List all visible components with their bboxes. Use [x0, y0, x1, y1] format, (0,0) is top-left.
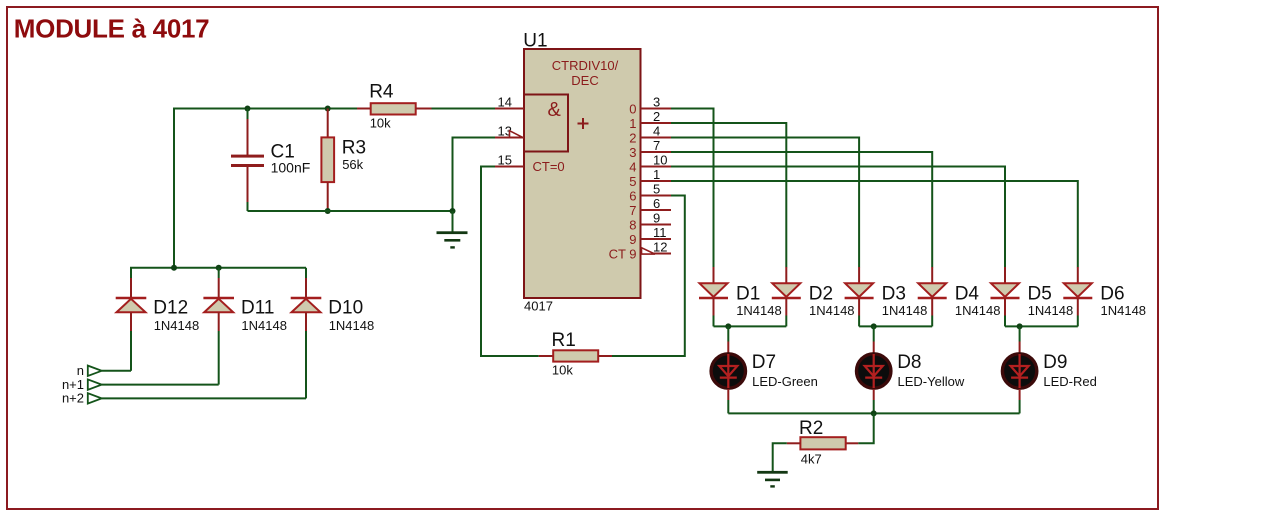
wire diode anode bus D12-D11-D10 — [130, 267, 306, 269]
pin 3 out 0 stub — [641, 108, 672, 110]
svg-text:LED-Green: LED-Green — [752, 374, 818, 389]
svg-text:3: 3 — [629, 145, 636, 160]
pin CT9 wedge — [642, 248, 656, 254]
node ground junction — [450, 208, 456, 214]
pin 13 stub — [495, 137, 524, 139]
op IC U1 4017 body — [524, 49, 641, 298]
wire R4 right to pin 14 — [432, 108, 496, 110]
svg-text:CT=0: CT=0 — [533, 159, 565, 174]
svg-text:10k: 10k — [370, 115, 391, 130]
svg-text:n+2: n+2 — [62, 391, 84, 406]
input terminal n+1 — [88, 379, 102, 389]
LED D9 — [1002, 326, 1036, 413]
diode D4 — [918, 267, 947, 326]
diode D5 — [991, 267, 1020, 326]
pin 15 stub — [495, 166, 524, 168]
svg-text:D5: D5 — [1028, 283, 1052, 304]
pin 10 out 4 stub — [641, 166, 672, 168]
wire out 3 to D4 — [671, 152, 932, 267]
LED D7 — [711, 326, 745, 413]
svg-text:D10: D10 — [328, 298, 363, 319]
diode D11 — [203, 268, 234, 385]
svg-text:D8: D8 — [897, 352, 921, 373]
svg-text:R3: R3 — [342, 138, 366, 159]
svg-text:1N4148: 1N4148 — [809, 303, 855, 318]
node C1 top junction — [245, 106, 251, 112]
node LED tap junction — [1017, 323, 1023, 329]
diode D10 — [291, 268, 322, 399]
pin 6 out 7 stub — [641, 209, 672, 211]
diode D12 — [116, 268, 147, 371]
wire common bus to R2 — [858, 413, 874, 443]
plus symbol — [578, 118, 589, 129]
wire R1 right to pin 6 (out 5) — [612, 196, 685, 357]
svg-text:D2: D2 — [809, 283, 833, 304]
svg-text:9: 9 — [629, 232, 636, 247]
pin 9 out 8 stub — [641, 224, 672, 226]
diode D3 — [845, 267, 874, 326]
svg-text:10k: 10k — [552, 363, 573, 378]
wire pin15 loop down-left to R1 — [481, 167, 539, 357]
svg-text:D11: D11 — [241, 298, 274, 319]
svg-text:4: 4 — [653, 123, 660, 138]
svg-text:LED-Red: LED-Red — [1043, 374, 1096, 389]
svg-text:7: 7 — [653, 138, 660, 153]
svg-text:1N4148: 1N4148 — [241, 318, 287, 333]
wire out 0 to D1 — [671, 109, 714, 268]
input terminal n — [88, 366, 102, 376]
svg-text:9: 9 — [653, 210, 660, 225]
svg-text:1N4148: 1N4148 — [329, 318, 375, 333]
svg-text:5: 5 — [629, 174, 636, 189]
svg-text:1N4148: 1N4148 — [736, 303, 782, 318]
pin 14 stub — [495, 108, 524, 110]
wire cathode bus D5-D6 — [1005, 325, 1078, 327]
svg-text:5: 5 — [653, 181, 660, 196]
svg-text:1N4148: 1N4148 — [882, 303, 928, 318]
svg-text:n+1: n+1 — [62, 377, 84, 392]
wire left vertical rail — [173, 108, 175, 268]
diode D2 — [772, 267, 801, 326]
svg-text:R4: R4 — [369, 82, 394, 103]
svg-text:R2: R2 — [799, 418, 823, 439]
node LED tap junction — [871, 323, 877, 329]
node R3 top junction — [325, 106, 331, 112]
svg-text:100nF: 100nF — [271, 159, 311, 175]
resistor R2 — [846, 442, 859, 444]
svg-text:DEC: DEC — [571, 73, 598, 88]
LED D8 — [857, 326, 891, 413]
node R3 bottom junction — [325, 208, 331, 214]
resistor R3 — [327, 109, 329, 138]
diode D1 — [699, 267, 728, 326]
svg-text:11: 11 — [653, 225, 667, 240]
svg-text:4: 4 — [629, 159, 636, 174]
svg-text:CT 9: CT 9 — [609, 246, 637, 261]
wire out 5 to D6 — [671, 181, 1078, 267]
svg-text:1: 1 — [629, 116, 636, 131]
svg-text:U1: U1 — [523, 31, 547, 52]
svg-text:D7: D7 — [752, 352, 776, 373]
svg-text:14: 14 — [498, 94, 512, 109]
pin 7 out 3 stub — [641, 151, 672, 153]
svg-text:56k: 56k — [342, 157, 363, 172]
svg-text:LED-Yellow: LED-Yellow — [898, 374, 965, 389]
svg-text:1N4148: 1N4148 — [1101, 303, 1147, 318]
svg-text:4017: 4017 — [524, 299, 553, 314]
resistor R4 — [357, 108, 371, 110]
svg-text:MODULE à 4017: MODULE à 4017 — [14, 14, 210, 44]
wire out 4 to D5 — [671, 167, 1005, 268]
svg-text:D12: D12 — [153, 298, 188, 319]
svg-text:2: 2 — [653, 109, 660, 124]
svg-text:n: n — [77, 363, 84, 378]
node R2 tap junction — [871, 410, 877, 416]
pin 12 out CT 9 stub — [641, 253, 672, 255]
svg-text:CTRDIV10/: CTRDIV10/ — [552, 58, 619, 73]
node D11 bus junction — [216, 265, 222, 271]
svg-text:1N4148: 1N4148 — [955, 303, 1001, 318]
svg-text:7: 7 — [629, 203, 636, 218]
wire input n — [102, 370, 131, 372]
ground symbol left — [452, 211, 454, 232]
pin 11 out 9 stub — [641, 238, 672, 240]
node LED tap junction — [725, 323, 731, 329]
svg-text:1N4148: 1N4148 — [1028, 303, 1074, 318]
ground symbol right — [757, 471, 788, 474]
svg-text:12: 12 — [653, 239, 667, 254]
pin 4 out 2 stub — [641, 137, 672, 139]
pin 5 out 6 stub — [641, 195, 672, 197]
svg-text:15: 15 — [498, 152, 512, 167]
svg-text:1: 1 — [653, 167, 660, 182]
svg-text:D1: D1 — [736, 283, 760, 304]
wire bottom node C1-R3-ground — [248, 210, 453, 212]
wire cathode bus D1-D2 — [714, 325, 787, 327]
svg-text:3: 3 — [653, 94, 660, 109]
wire LED common bus — [728, 412, 1019, 414]
svg-text:8: 8 — [629, 217, 636, 232]
pin 2 out 1 stub — [641, 122, 672, 124]
wire input n+2 — [102, 397, 306, 399]
pin 1 out 5 stub — [641, 180, 672, 182]
svg-text:D4: D4 — [955, 283, 980, 304]
svg-text:6: 6 — [629, 188, 636, 203]
svg-text:10: 10 — [653, 152, 667, 167]
svg-text:D9: D9 — [1043, 352, 1067, 373]
svg-text:6: 6 — [653, 196, 660, 211]
svg-text:4k7: 4k7 — [801, 452, 822, 467]
node D12 bus junction — [171, 265, 177, 271]
svg-text:D6: D6 — [1100, 283, 1124, 304]
svg-text:&: & — [548, 99, 562, 121]
wire input n+1 — [102, 384, 219, 386]
resistor R1 — [539, 355, 553, 357]
wire cathode bus D3-D4 — [859, 325, 932, 327]
clock gate box — [524, 95, 568, 152]
wire pin13 to ground node — [453, 138, 496, 212]
svg-text:0: 0 — [629, 101, 636, 116]
input terminal n+2 — [88, 393, 102, 403]
svg-text:D3: D3 — [882, 283, 906, 304]
wire R2 to ground — [773, 443, 787, 471]
wire out 1 to D2 — [671, 123, 786, 267]
diode D6 — [1063, 267, 1092, 326]
svg-text:R1: R1 — [552, 330, 576, 351]
capacitor C1 — [247, 109, 249, 120]
wire out 2 to D3 — [671, 138, 859, 268]
wire top node: left rail to R4 — [174, 108, 357, 110]
svg-text:1N4148: 1N4148 — [154, 318, 200, 333]
svg-text:2: 2 — [629, 130, 636, 145]
pin 13 clock wedge — [510, 131, 523, 138]
